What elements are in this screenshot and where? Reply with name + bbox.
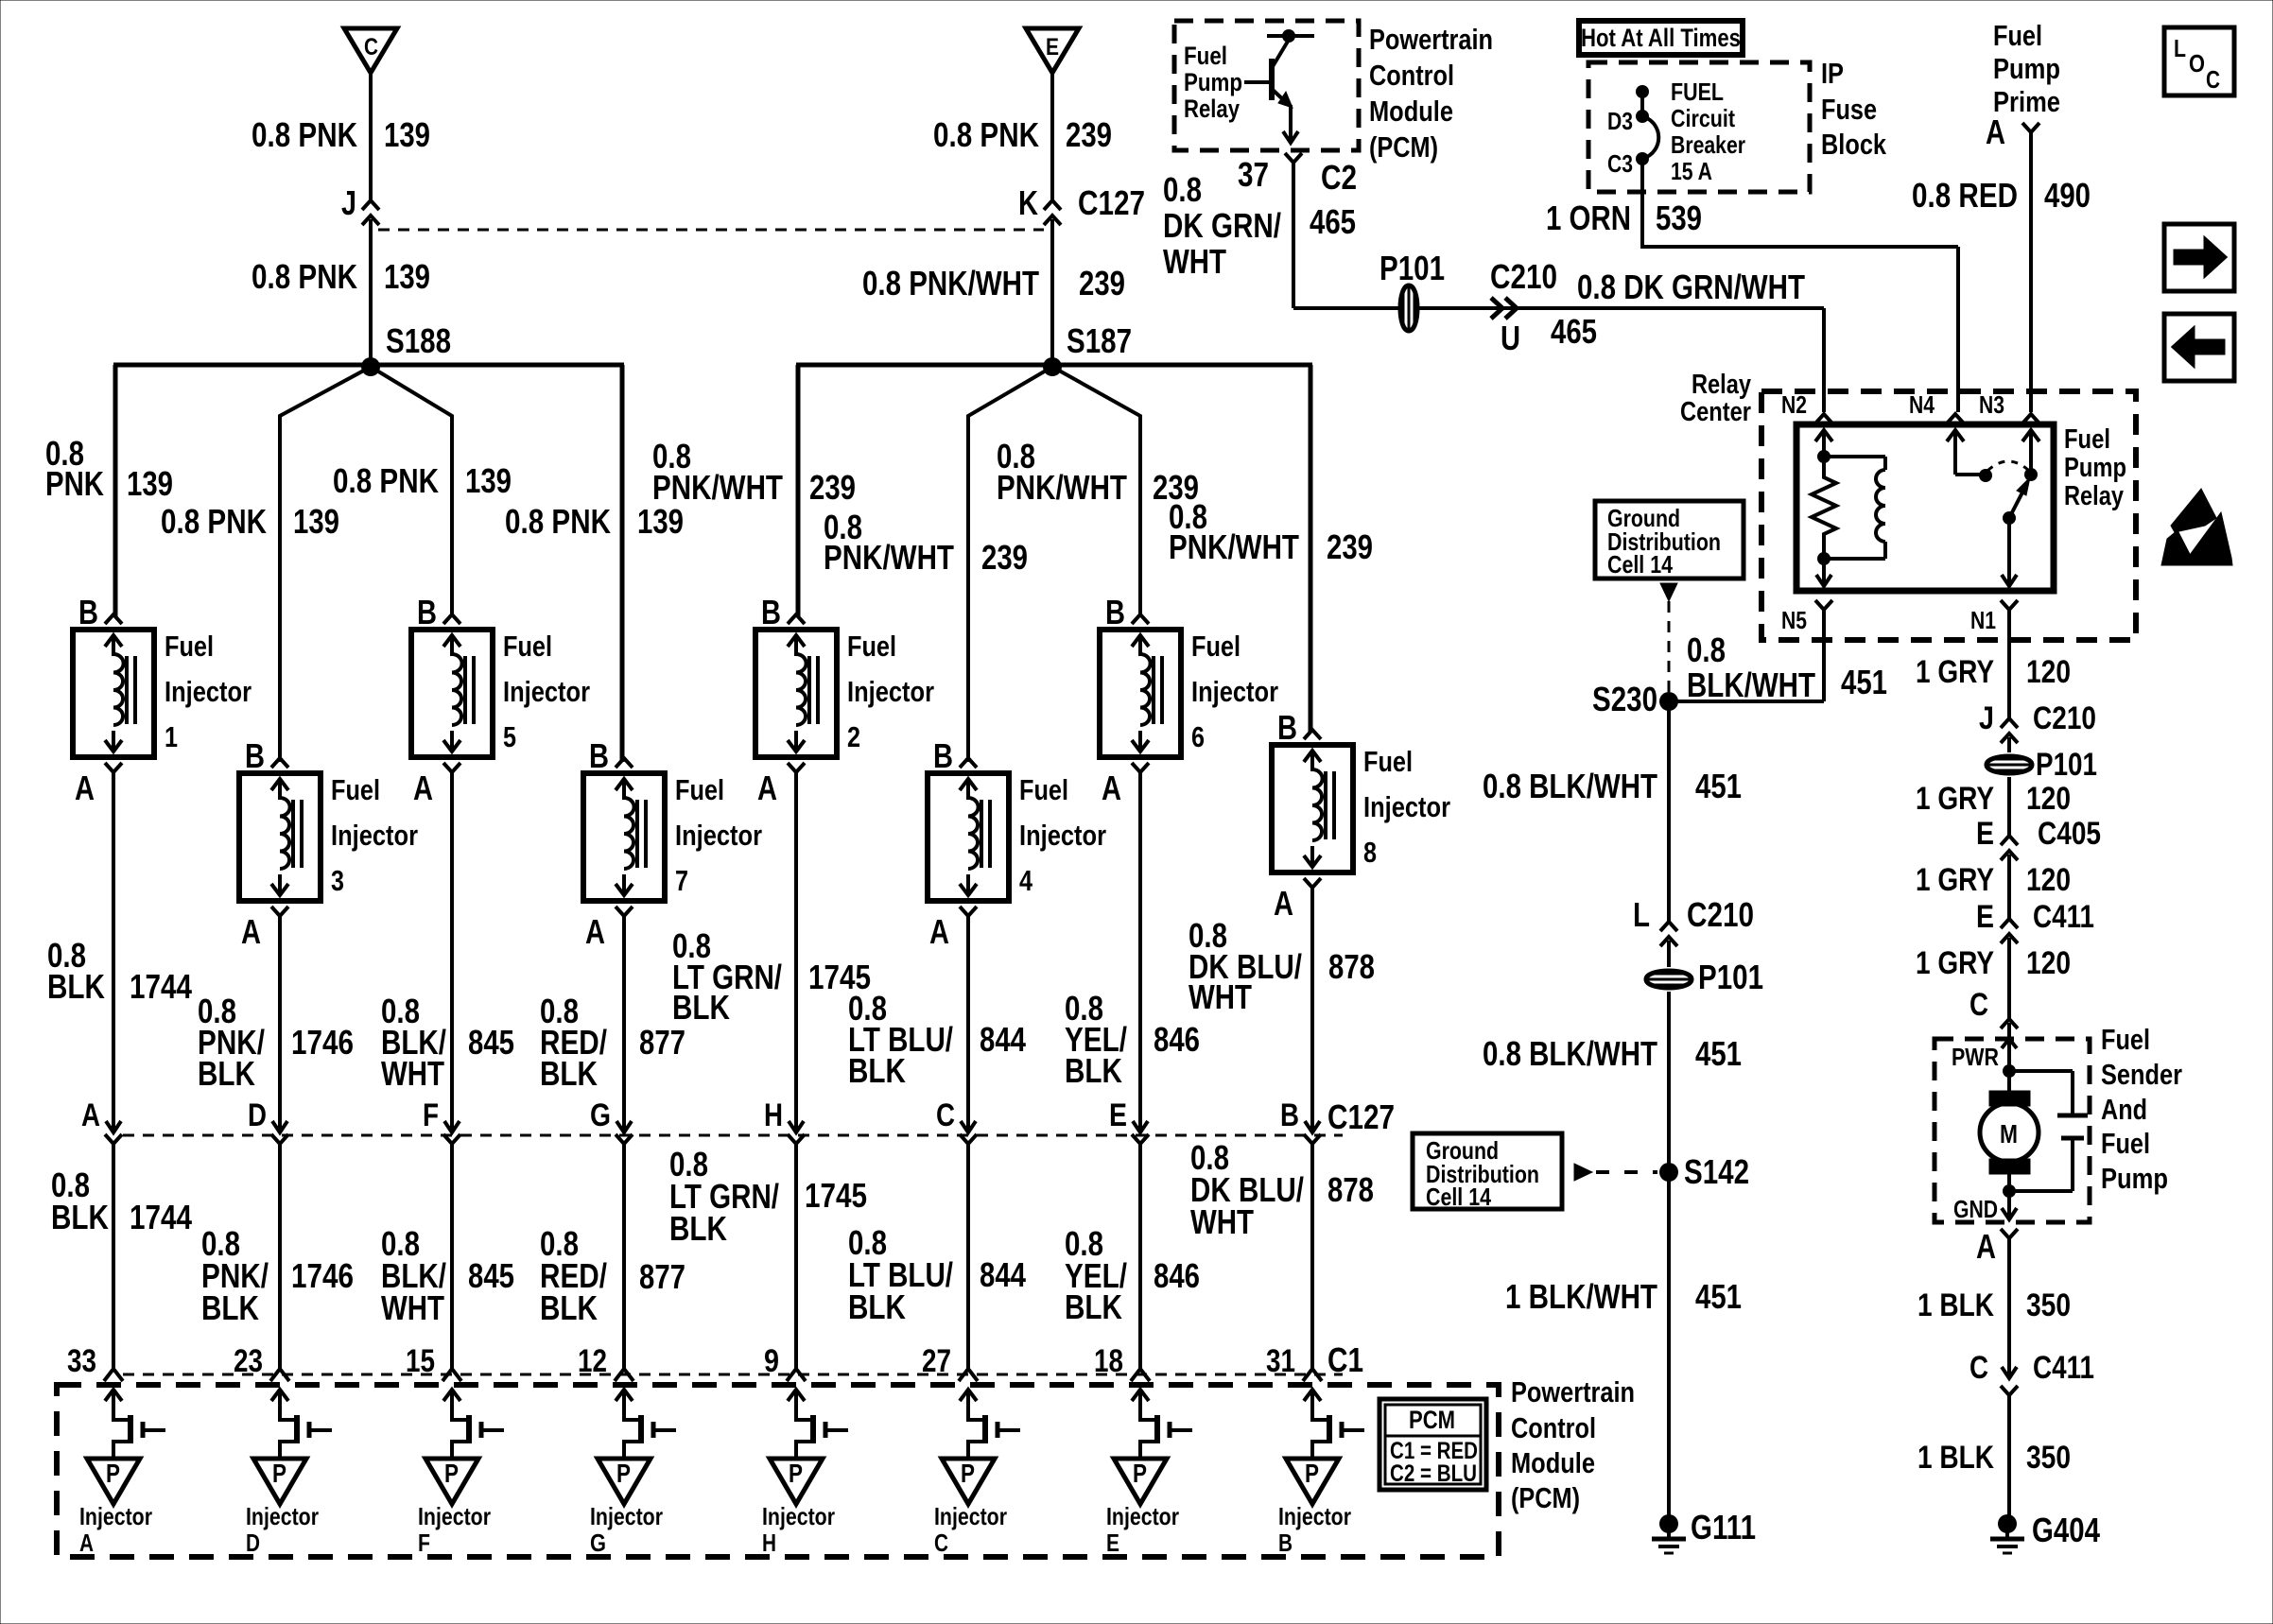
svg-text:A: A bbox=[79, 1529, 94, 1557]
svg-text:878: 878 bbox=[1327, 1170, 1374, 1209]
relay switch bbox=[1947, 430, 2039, 586]
pass-through P101 right column bbox=[1987, 737, 2032, 773]
svg-text:GND: GND bbox=[1953, 1195, 1998, 1223]
svg-text:0.8: 0.8 bbox=[1163, 170, 1202, 209]
relay coil branch bbox=[1812, 430, 1885, 586]
driver output triangle P A bbox=[87, 1459, 140, 1504]
svg-text:846: 846 bbox=[1154, 1020, 1200, 1059]
wire 0.8 PNK 139 from J to S188 bbox=[369, 219, 373, 367]
svg-text:465: 465 bbox=[1310, 202, 1356, 241]
driver output triangle P D bbox=[253, 1459, 306, 1504]
svg-text:N4: N4 bbox=[1909, 390, 1935, 419]
svg-text:P101: P101 bbox=[2036, 747, 2097, 783]
svg-text:0.8 PNK/WHT: 0.8 PNK/WHT bbox=[862, 264, 1039, 302]
svg-text:Relay: Relay bbox=[1184, 95, 1240, 123]
wire 1 BLK 350 bbox=[2007, 1238, 2011, 1365]
fuel injector 5 bbox=[411, 614, 493, 772]
svg-text:239: 239 bbox=[1327, 527, 1373, 566]
svg-text:B: B bbox=[1280, 1097, 1299, 1133]
wire 0.8 PNK/WHT 239 from K to S187 bbox=[1050, 219, 1054, 367]
fuel injector 6 bbox=[1100, 614, 1181, 772]
ground distribution cell 14 box upper bbox=[1595, 501, 1744, 579]
svg-text:C411: C411 bbox=[2033, 1350, 2094, 1386]
svg-text:A: A bbox=[413, 769, 433, 807]
svg-text:E: E bbox=[1106, 1529, 1119, 1557]
wire 1 GRY 120 (2) bbox=[2007, 777, 2011, 836]
svg-text:H: H bbox=[764, 1097, 783, 1133]
svg-text:C210: C210 bbox=[2033, 700, 2096, 736]
svg-text:C405: C405 bbox=[2038, 816, 2101, 852]
svg-text:WHT: WHT bbox=[1163, 242, 1226, 281]
svg-text:Cell 14: Cell 14 bbox=[1426, 1183, 1491, 1211]
wire injector7 to C127 bbox=[622, 916, 626, 1132]
svg-text:0.8 PNK: 0.8 PNK bbox=[161, 502, 267, 541]
svg-text:Injector: Injector bbox=[1363, 790, 1450, 823]
svg-text:1 GRY: 1 GRY bbox=[1916, 654, 1994, 690]
svg-text:P: P bbox=[1133, 1459, 1147, 1488]
wire col4 C127 to PCM bbox=[622, 1144, 626, 1369]
fuel circuit breaker 15A bbox=[1636, 85, 1658, 249]
left arrow box bbox=[2164, 314, 2234, 381]
svg-text:7: 7 bbox=[675, 864, 688, 897]
PCM dashed box bbox=[57, 1385, 1499, 1557]
svg-text:P101: P101 bbox=[1379, 249, 1445, 287]
svg-text:BLK: BLK bbox=[201, 1288, 259, 1327]
svg-text:120: 120 bbox=[2026, 945, 2071, 981]
wire 0.8 RED 490 bbox=[2029, 132, 2033, 412]
svg-text:A: A bbox=[929, 912, 949, 951]
svg-text:B: B bbox=[245, 736, 265, 775]
wire to injector 7 bbox=[620, 365, 625, 762]
svg-text:E: E bbox=[1046, 34, 1059, 60]
svg-text:U: U bbox=[1501, 319, 1520, 357]
svg-text:Injector: Injector bbox=[847, 675, 934, 708]
wire to injector 8 bbox=[1309, 365, 1313, 733]
svg-text:BLK: BLK bbox=[540, 1288, 598, 1327]
PCM driver dashed box top bbox=[1174, 21, 1359, 150]
svg-text:O: O bbox=[2189, 49, 2205, 78]
svg-text:350: 350 bbox=[2026, 1440, 2071, 1476]
svg-text:BLK: BLK bbox=[672, 988, 730, 1027]
svg-text:S142: S142 bbox=[1684, 1152, 1749, 1191]
wire injector6 to C127 bbox=[1138, 772, 1142, 1132]
Relay Center dashed box bbox=[1761, 391, 2136, 640]
ESD sensitive symbol bbox=[2161, 489, 2232, 565]
svg-text:0.8 RED: 0.8 RED bbox=[1912, 176, 2018, 215]
connector C2 pin 37 bbox=[1285, 153, 1302, 163]
svg-text:Fuse: Fuse bbox=[1821, 93, 1877, 126]
svg-text:Injector: Injector bbox=[762, 1502, 835, 1530]
svg-text:8: 8 bbox=[1363, 836, 1377, 869]
wire to injector 2 bbox=[796, 365, 801, 616]
svg-text:Injector: Injector bbox=[79, 1502, 152, 1530]
svg-text:PCM: PCM bbox=[1409, 1406, 1455, 1434]
svg-text:845: 845 bbox=[468, 1256, 514, 1295]
svg-text:A: A bbox=[1986, 112, 2005, 151]
svg-text:539: 539 bbox=[1656, 199, 1702, 237]
svg-text:Fuel: Fuel bbox=[1993, 19, 2042, 52]
svg-text:B: B bbox=[417, 593, 437, 631]
svg-text:Relay: Relay bbox=[1692, 370, 1751, 400]
svg-text:15: 15 bbox=[406, 1343, 435, 1379]
splice S142 bbox=[1659, 1163, 1678, 1182]
svg-text:1745: 1745 bbox=[805, 1176, 867, 1215]
svg-text:Module: Module bbox=[1369, 95, 1453, 128]
svg-text:WHT: WHT bbox=[381, 1054, 444, 1093]
svg-text:L: L bbox=[1633, 895, 1650, 934]
svg-text:Fuel: Fuel bbox=[2101, 1127, 2150, 1160]
svg-text:P: P bbox=[789, 1459, 803, 1488]
svg-text:451: 451 bbox=[1695, 1034, 1742, 1073]
svg-text:F: F bbox=[418, 1529, 430, 1557]
svg-text:BLK: BLK bbox=[848, 1051, 906, 1090]
svg-text:0.8 PNK: 0.8 PNK bbox=[505, 502, 611, 541]
injector driver E (FET) bbox=[1132, 1390, 1192, 1459]
svg-text:Fuel: Fuel bbox=[331, 773, 380, 806]
svg-text:WHT: WHT bbox=[381, 1288, 444, 1327]
svg-text:PNK: PNK bbox=[45, 464, 104, 503]
wire to injector 5 (diagonal) bbox=[371, 367, 452, 616]
svg-text:350: 350 bbox=[2026, 1287, 2071, 1323]
svg-text:G404: G404 bbox=[2032, 1511, 2100, 1549]
svg-text:239: 239 bbox=[1079, 264, 1125, 302]
driver output triangle P C bbox=[942, 1459, 995, 1504]
svg-text:C127: C127 bbox=[1078, 183, 1145, 222]
bus from S187 bbox=[796, 363, 1312, 368]
svg-text:Cell 14: Cell 14 bbox=[1607, 550, 1673, 579]
svg-text:E: E bbox=[1976, 816, 1994, 852]
svg-text:J: J bbox=[1979, 700, 1994, 736]
svg-text:P: P bbox=[272, 1459, 286, 1488]
svg-text:Circuit: Circuit bbox=[1671, 104, 1735, 132]
fuel pump motor bbox=[1980, 1023, 2039, 1198]
svg-text:A: A bbox=[1102, 769, 1121, 807]
fuel pump relay box bbox=[1796, 424, 2054, 591]
svg-text:K: K bbox=[1018, 183, 1038, 222]
svg-text:C2 = BLU: C2 = BLU bbox=[1390, 1460, 1477, 1487]
pass-through P101 on BLK/WHT wire bbox=[1646, 941, 1692, 988]
fuel injector 2 bbox=[755, 614, 837, 772]
svg-text:Fuel: Fuel bbox=[1184, 42, 1227, 70]
svg-text:9: 9 bbox=[764, 1343, 779, 1379]
wire col8 C127 to PCM bbox=[1310, 1144, 1314, 1369]
svg-text:1 BLK/WHT: 1 BLK/WHT bbox=[1505, 1277, 1657, 1316]
svg-text:BLK: BLK bbox=[47, 967, 105, 1006]
wire injector5 to C127 bbox=[450, 772, 454, 1132]
injector driver F (FET) bbox=[443, 1390, 504, 1459]
svg-text:5: 5 bbox=[503, 720, 516, 753]
svg-text:1 BLK: 1 BLK bbox=[1917, 1287, 1994, 1323]
wire 1 GRY 120 (3) bbox=[2007, 855, 2011, 919]
svg-text:BLK: BLK bbox=[669, 1209, 727, 1248]
svg-text:Control: Control bbox=[1369, 59, 1454, 92]
svg-text:Injector: Injector bbox=[331, 819, 418, 852]
svg-text:E: E bbox=[1109, 1097, 1127, 1133]
svg-text:A: A bbox=[75, 769, 95, 807]
svg-text:1746: 1746 bbox=[291, 1256, 354, 1295]
svg-text:Powertrain: Powertrain bbox=[1511, 1375, 1635, 1408]
svg-text:A: A bbox=[241, 912, 261, 951]
svg-text:B: B bbox=[1278, 1529, 1293, 1557]
svg-text:27: 27 bbox=[922, 1343, 951, 1379]
svg-text:C127: C127 bbox=[1327, 1097, 1395, 1136]
wire injector4 to C127 bbox=[966, 916, 970, 1132]
svg-text:Breaker: Breaker bbox=[1671, 130, 1745, 159]
svg-text:465: 465 bbox=[1551, 312, 1597, 351]
svg-text:846: 846 bbox=[1154, 1256, 1200, 1295]
svg-text:31: 31 bbox=[1266, 1343, 1295, 1379]
svg-text:139: 139 bbox=[293, 502, 339, 541]
svg-text:Injector: Injector bbox=[246, 1502, 319, 1530]
wire col3 C127 to PCM bbox=[450, 1144, 454, 1369]
wire 1 ORN 539 to relay N4 bbox=[1642, 245, 1958, 249]
svg-text:PNK/WHT: PNK/WHT bbox=[652, 468, 783, 507]
driver output triangle P B bbox=[1286, 1459, 1339, 1504]
wire to injector 3 (diagonal) bbox=[280, 367, 371, 762]
svg-text:Fuel: Fuel bbox=[165, 630, 214, 663]
svg-text:BLK: BLK bbox=[540, 1054, 598, 1093]
svg-text:120: 120 bbox=[2026, 654, 2071, 690]
svg-text:Injector: Injector bbox=[1106, 1502, 1179, 1530]
svg-text:Injector: Injector bbox=[165, 675, 252, 708]
svg-text:Injector: Injector bbox=[503, 675, 590, 708]
ground distribution cell 14 box lower bbox=[1413, 1133, 1562, 1211]
svg-text:C: C bbox=[936, 1097, 955, 1133]
svg-text:15 A: 15 A bbox=[1671, 157, 1712, 185]
svg-text:451: 451 bbox=[1695, 1277, 1742, 1316]
wire to injector 1 bbox=[113, 365, 118, 616]
relay terminal N5 bbox=[1815, 600, 1832, 610]
driver output triangle P F bbox=[425, 1459, 478, 1504]
svg-text:23: 23 bbox=[234, 1343, 263, 1379]
svg-text:J: J bbox=[341, 183, 356, 222]
svg-text:0.8 PNK: 0.8 PNK bbox=[333, 461, 439, 500]
svg-text:37: 37 bbox=[1238, 155, 1269, 194]
svg-text:877: 877 bbox=[639, 1257, 685, 1296]
injector driver H (FET) bbox=[788, 1390, 848, 1459]
svg-text:P: P bbox=[616, 1459, 631, 1488]
svg-text:139: 139 bbox=[384, 115, 430, 154]
svg-text:1 GRY: 1 GRY bbox=[1916, 862, 1994, 898]
svg-text:239: 239 bbox=[809, 468, 856, 507]
svg-text:12: 12 bbox=[578, 1343, 607, 1379]
svg-text:239: 239 bbox=[981, 538, 1028, 577]
svg-text:B: B bbox=[1105, 593, 1125, 631]
svg-text:BLK: BLK bbox=[1065, 1287, 1122, 1326]
svg-text:1744: 1744 bbox=[130, 967, 192, 1006]
dashed ground lead to S142 bbox=[1574, 1164, 1592, 1181]
svg-text:C: C bbox=[1969, 1350, 1988, 1386]
wire 0.8 PNK 239 from E to K bbox=[1050, 73, 1054, 200]
injector driver C (FET) bbox=[960, 1390, 1020, 1459]
svg-text:Hot At All Times: Hot At All Times bbox=[1581, 24, 1741, 52]
right arrow box bbox=[2164, 224, 2234, 291]
svg-text:2: 2 bbox=[847, 720, 860, 753]
wire to injector 6 (diagonal) bbox=[1052, 367, 1140, 616]
fuel injector 7 bbox=[583, 758, 665, 916]
svg-text:1 ORN: 1 ORN bbox=[1546, 199, 1631, 237]
fuel injector 3 bbox=[239, 758, 321, 916]
svg-text:0.8 PNK: 0.8 PNK bbox=[252, 257, 357, 296]
svg-text:C: C bbox=[2206, 65, 2220, 94]
fuel sender dashed box bbox=[1935, 1039, 2090, 1222]
svg-text:B: B bbox=[933, 736, 953, 775]
svg-text:Fuel: Fuel bbox=[2101, 1023, 2150, 1056]
svg-text:139: 139 bbox=[127, 464, 173, 503]
svg-text:33: 33 bbox=[67, 1343, 96, 1379]
svg-text:120: 120 bbox=[2026, 781, 2071, 817]
svg-text:A: A bbox=[1976, 1227, 1996, 1266]
wire 1 GRY 120 (4) bbox=[2007, 938, 2011, 1019]
svg-text:0.8: 0.8 bbox=[1687, 631, 1726, 669]
wire col5 C127 to PCM bbox=[794, 1144, 798, 1369]
svg-text:Pump: Pump bbox=[2064, 453, 2126, 483]
svg-text:BLK/WHT: BLK/WHT bbox=[1687, 665, 1815, 704]
svg-text:P: P bbox=[106, 1459, 120, 1488]
svg-text:Pump: Pump bbox=[1993, 52, 2060, 85]
svg-text:C1: C1 bbox=[1327, 1340, 1363, 1379]
svg-text:PNK/WHT: PNK/WHT bbox=[824, 538, 954, 577]
driver output triangle P H bbox=[770, 1459, 823, 1504]
svg-text:Center: Center bbox=[1680, 397, 1751, 427]
svg-text:Control: Control bbox=[1511, 1411, 1596, 1444]
svg-text:D: D bbox=[246, 1529, 260, 1557]
svg-text:451: 451 bbox=[1695, 767, 1742, 805]
svg-text:Injector: Injector bbox=[1019, 819, 1106, 852]
svg-text:Injector: Injector bbox=[1191, 675, 1278, 708]
svg-text:S187: S187 bbox=[1067, 321, 1132, 360]
svg-text:Injector: Injector bbox=[418, 1502, 491, 1530]
svg-text:Fuel: Fuel bbox=[2064, 424, 2110, 455]
svg-text:1: 1 bbox=[165, 720, 178, 753]
wire to injector 4 (diagonal) bbox=[968, 367, 1052, 762]
svg-text:1744: 1744 bbox=[130, 1198, 192, 1236]
svg-text:239: 239 bbox=[1066, 115, 1112, 154]
svg-text:C2: C2 bbox=[1321, 158, 1357, 197]
svg-text:Fuel: Fuel bbox=[1019, 773, 1068, 806]
svg-text:0.8 BLK/WHT: 0.8 BLK/WHT bbox=[1483, 1034, 1657, 1073]
fuel injector 8 bbox=[1272, 730, 1353, 888]
svg-text:BLK: BLK bbox=[51, 1198, 109, 1236]
svg-text:FUEL: FUEL bbox=[1671, 78, 1724, 106]
in-line connector C210 U bbox=[1491, 298, 1502, 319]
svg-text:S188: S188 bbox=[386, 321, 451, 360]
svg-text:N2: N2 bbox=[1781, 390, 1807, 419]
wire S142 to G111 1 BLK/WHT 451 bbox=[1667, 1172, 1671, 1515]
wire col1 C127 to PCM bbox=[112, 1144, 115, 1369]
svg-text:844: 844 bbox=[980, 1020, 1026, 1059]
svg-text:Injector: Injector bbox=[590, 1502, 663, 1530]
wire col7 C127 to PCM bbox=[1138, 1144, 1142, 1369]
svg-text:B: B bbox=[78, 593, 98, 631]
svg-text:0.8 BLK/WHT: 0.8 BLK/WHT bbox=[1483, 767, 1657, 805]
svg-text:(PCM): (PCM) bbox=[1511, 1481, 1580, 1514]
svg-text:PNK/WHT: PNK/WHT bbox=[1169, 527, 1299, 566]
svg-text:A: A bbox=[81, 1097, 100, 1133]
injector driver A (FET) bbox=[105, 1390, 165, 1459]
ground G404 bbox=[1990, 1514, 2024, 1553]
wire col2 C127 to PCM bbox=[278, 1144, 282, 1369]
svg-text:C: C bbox=[1969, 987, 1988, 1023]
ground G111 bbox=[1652, 1514, 1686, 1553]
svg-text:N3: N3 bbox=[1979, 390, 2004, 419]
svg-text:P101: P101 bbox=[1698, 958, 1763, 996]
Hot At All Times box bbox=[1579, 21, 1743, 55]
svg-text:C3: C3 bbox=[1607, 149, 1633, 178]
svg-text:Fuel: Fuel bbox=[1191, 630, 1241, 663]
wire 0.8 PNK 139 from C to J bbox=[369, 73, 373, 200]
svg-text:IP: IP bbox=[1821, 57, 1844, 90]
wire P101 to S142 0.8 BLK/WHT 451 bbox=[1667, 992, 1671, 1172]
svg-text:A: A bbox=[1274, 884, 1293, 923]
PCM legend box bbox=[1379, 1399, 1486, 1490]
svg-text:C210: C210 bbox=[1687, 895, 1754, 934]
connector triangle C bbox=[344, 28, 397, 73]
svg-text:139: 139 bbox=[637, 502, 684, 541]
svg-text:120: 120 bbox=[2026, 862, 2071, 898]
connector row C127 dashed line bbox=[123, 1134, 1343, 1137]
svg-text:A: A bbox=[585, 912, 605, 951]
svg-text:Injector: Injector bbox=[934, 1502, 1007, 1530]
svg-text:877: 877 bbox=[639, 1023, 685, 1062]
svg-text:C210: C210 bbox=[1490, 257, 1557, 296]
PCM connector dashed line bbox=[123, 1373, 1343, 1376]
connector triangle E bbox=[1026, 28, 1079, 73]
wire injector3 to C127 bbox=[278, 916, 282, 1132]
svg-text:C411: C411 bbox=[2033, 899, 2094, 935]
svg-text:Sender: Sender bbox=[2101, 1058, 2182, 1091]
wire 0.8 DK GRN/WHT 465 from C2 bbox=[1292, 163, 1295, 308]
relay terminal N1 bbox=[2001, 600, 2018, 610]
svg-text:PWR: PWR bbox=[1952, 1043, 1999, 1071]
injector driver B (FET) bbox=[1304, 1390, 1364, 1459]
dashed ground lead to S230 bbox=[1660, 583, 1677, 601]
svg-text:C: C bbox=[934, 1529, 948, 1557]
svg-text:1 GRY: 1 GRY bbox=[1916, 945, 1994, 981]
svg-text:P: P bbox=[444, 1459, 459, 1488]
svg-text:Fuel: Fuel bbox=[675, 773, 724, 806]
svg-text:Fuel: Fuel bbox=[503, 630, 552, 663]
svg-text:Module: Module bbox=[1511, 1446, 1595, 1479]
svg-text:Injector: Injector bbox=[675, 819, 762, 852]
svg-text:0.8 DK GRN/WHT: 0.8 DK GRN/WHT bbox=[1577, 268, 1805, 306]
svg-text:B: B bbox=[761, 593, 781, 631]
svg-text:845: 845 bbox=[468, 1023, 514, 1062]
svg-text:D3: D3 bbox=[1607, 107, 1633, 135]
wire 1 BLK 350 (2) bbox=[2007, 1395, 2011, 1515]
svg-text:0.8 PNK: 0.8 PNK bbox=[933, 115, 1039, 154]
svg-text:BLK: BLK bbox=[198, 1054, 255, 1093]
svg-text:S230: S230 bbox=[1592, 680, 1657, 718]
svg-text:B: B bbox=[1277, 708, 1297, 747]
svg-text:BLK: BLK bbox=[1065, 1051, 1122, 1090]
driver output triangle P G bbox=[598, 1459, 651, 1504]
svg-text:Relay: Relay bbox=[2064, 481, 2124, 511]
driver output triangle P E bbox=[1114, 1459, 1167, 1504]
svg-text:3: 3 bbox=[331, 864, 344, 897]
svg-text:139: 139 bbox=[465, 461, 512, 500]
svg-text:DK GRN/: DK GRN/ bbox=[1163, 206, 1281, 245]
svg-text:844: 844 bbox=[980, 1255, 1026, 1294]
svg-text:(PCM): (PCM) bbox=[1369, 130, 1438, 164]
injector driver D (FET) bbox=[271, 1390, 332, 1459]
wire injector1 to C127 bbox=[112, 772, 115, 1132]
fuel injector 1 bbox=[73, 614, 154, 772]
svg-text:P: P bbox=[1305, 1459, 1319, 1488]
svg-text:Pump: Pump bbox=[2101, 1162, 2168, 1195]
svg-text:G: G bbox=[590, 1529, 606, 1557]
svg-text:N5: N5 bbox=[1781, 606, 1807, 634]
